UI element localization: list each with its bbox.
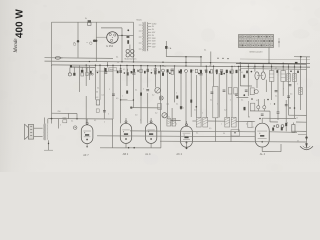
wire if link2 — [208, 120, 225, 122]
svg-text:0,2: 0,2 — [152, 95, 154, 97]
node j52 — [51, 118, 53, 120]
group x201 — [200, 70, 202, 73]
resistor R3 — [81, 73, 84, 76]
resistor group x133 — [133, 69, 135, 72]
box left of V6 — [248, 122, 252, 128]
earth arrow — [305, 143, 307, 148]
svg-text:0,2: 0,2 — [229, 71, 231, 73]
svg-text:0,1: 0,1 — [204, 50, 206, 52]
elec cap C30 — [292, 125, 295, 133]
wire if link3 — [236, 120, 255, 122]
wire ak2 bottom — [186, 141, 188, 147]
svg-text:2x350: 2x350 — [152, 23, 156, 25]
wire v104 — [103, 67, 105, 119]
svg-text:1: 1 — [140, 120, 141, 122]
transformer T1 primary winding — [142, 22, 145, 51]
wire v141 — [140, 66, 142, 124]
bus line lower — [52, 65, 311, 67]
tube V3 AB2 — [120, 123, 131, 143]
wire v133 — [132, 66, 134, 108]
wire v77 — [76, 21, 78, 23]
wire lamp feed — [129, 45, 131, 50]
stub right of block — [278, 38, 280, 47]
osc box a — [158, 104, 162, 110]
wire x266 — [265, 80, 267, 92]
mark m2 — [97, 72, 99, 74]
res ak2 a — [176, 96, 178, 99]
wire x254 — [254, 64, 256, 72]
node j77 — [76, 118, 78, 120]
group x181 — [180, 69, 182, 72]
transformer T1 secondary winding — [146, 22, 149, 51]
switch contact b — [95, 40, 98, 43]
svg-text:0,5: 0,5 — [116, 98, 118, 100]
mark m9 — [158, 71, 160, 73]
wire tube1 bottom — [86, 144, 88, 147]
svg-text:0,5: 0,5 — [253, 68, 255, 70]
svg-text:0,3: 0,3 — [135, 115, 137, 117]
svg-text:50: 50 — [117, 62, 119, 64]
group x191 — [190, 69, 192, 72]
fuse holder ellipse — [55, 57, 60, 60]
resistor group x147 — [147, 69, 149, 72]
jack circle — [73, 126, 77, 130]
junction blob ak2 — [180, 106, 182, 109]
wire short link left — [71, 66, 95, 68]
cap if1 — [211, 91, 214, 93]
svg-text:0,1: 0,1 — [241, 72, 243, 74]
circ out1 — [276, 125, 279, 128]
wire top mid vertical c — [185, 57, 187, 67]
wire v174 — [174, 66, 176, 103]
wire v107 — [107, 62, 109, 68]
wire rectifier anode feed — [96, 36, 107, 38]
mark m17 — [251, 71, 253, 73]
cap if3 — [235, 93, 238, 95]
svg-text:3: 3 — [217, 104, 218, 106]
svg-text:3: 3 — [288, 68, 289, 70]
svg-text:1: 1 — [270, 104, 271, 106]
res grid x273 — [272, 128, 274, 131]
node bb1 — [128, 147, 130, 149]
grid cap V5 — [186, 124, 188, 126]
group x232 — [231, 70, 233, 73]
wire rectifier output — [118, 34, 134, 36]
wire ak2 h — [172, 119, 181, 121]
wire field coil link — [52, 112, 78, 114]
dial lamp 4 — [131, 54, 134, 57]
wire top mid vertical a — [165, 41, 167, 57]
svg-text:Skalenlampen: Skalenlampen — [124, 59, 136, 61]
cap row b — [289, 84, 292, 86]
svg-text:0,5: 0,5 — [209, 128, 211, 130]
coil box right b — [281, 71, 286, 82]
wire v213 — [213, 66, 215, 86]
svg-text:5: 5 — [170, 70, 171, 72]
node h100 b — [133, 99, 134, 100]
wire bb v112 — [111, 119, 113, 148]
mark m7 — [144, 71, 146, 74]
svg-text:0,1: 0,1 — [275, 68, 277, 70]
tube V4 AL4 — [145, 123, 156, 143]
group x196 — [195, 69, 197, 72]
grid cap V2 — [86, 122, 88, 124]
box if2a — [228, 88, 231, 95]
node dot — [127, 29, 129, 31]
wire v201b — [200, 73, 202, 117]
wire x258 — [256, 80, 258, 88]
contact ring near rectifier — [90, 42, 93, 45]
cap r8 — [285, 104, 288, 106]
circ d2 — [263, 106, 266, 109]
resistor group x155 — [154, 68, 157, 70]
wire right top stub — [294, 56, 310, 58]
transformer T1 core — [143, 22, 145, 52]
wire right vert a — [288, 64, 290, 115]
svg-text:5: 5 — [108, 114, 109, 116]
svg-text:0,1: 0,1 — [241, 100, 243, 102]
node junction at frame right — [121, 35, 123, 37]
resistor group x141 — [140, 69, 142, 72]
svg-text:8: 8 — [287, 123, 288, 125]
rectifier tube G354 — [107, 32, 118, 43]
wire h100 — [121, 99, 134, 101]
wire v147 — [147, 66, 149, 88]
svg-text:G 354: G 354 — [106, 44, 114, 48]
wire out v286 — [285, 100, 287, 123]
res r31 — [281, 127, 283, 130]
mark m18 — [276, 70, 278, 73]
dial lamp 2 — [131, 50, 134, 53]
pot with cross — [159, 96, 163, 100]
tube V5 AK2 — [181, 126, 193, 147]
wire x248 — [247, 64, 249, 96]
resistor R10 — [96, 100, 99, 105]
resistor x244 — [243, 75, 245, 78]
tube V2 AF7 — [81, 125, 93, 144]
small box spk — [63, 120, 67, 123]
wire top mid vertical e — [210, 52, 212, 67]
wire v6 top feed — [261, 118, 263, 123]
box left of V6 low — [231, 130, 239, 136]
svg-text:2: 2 — [283, 89, 284, 91]
mark m13 — [209, 71, 211, 73]
group x226 — [226, 70, 228, 73]
wire v79 — [78, 66, 80, 92]
bus line bottom right — [240, 68, 307, 71]
svg-text:AK 2: AK 2 — [176, 152, 182, 156]
wire det h2 — [236, 96, 248, 98]
svg-text:2: 2 — [158, 70, 159, 72]
svg-text:250: 250 — [58, 111, 61, 113]
group x211 — [210, 70, 212, 73]
svg-text:Wellenschalter: Wellenschalter — [250, 51, 263, 54]
wire v196b — [196, 75, 198, 117]
svg-text:AL 4: AL 4 — [260, 152, 266, 156]
mark m11 — [179, 71, 181, 73]
node mark right — [196, 106, 198, 108]
svg-text:2: 2 — [204, 70, 205, 72]
wire if link1 — [192, 120, 196, 122]
wire v191b — [190, 72, 192, 117]
svg-text:0,5: 0,5 — [290, 94, 292, 96]
grid cap V4 — [150, 121, 152, 123]
wire v86 — [85, 65, 87, 86]
transformer tap stubs right — [148, 23, 152, 25]
node blob x131 — [130, 107, 132, 109]
output transformer secondary — [46, 124, 49, 140]
node tm2 — [200, 56, 202, 58]
wire spk bot — [34, 136, 43, 138]
loudspeaker — [28, 125, 33, 140]
resistor group x105 — [105, 68, 107, 71]
waveband switch contacts — [239, 36, 241, 38]
wire bb v161 — [160, 131, 162, 148]
dot r1 — [251, 98, 253, 100]
svg-text:AB 2: AB 2 — [123, 152, 129, 156]
svg-text:2: 2 — [104, 122, 105, 124]
svg-text:0,1: 0,1 — [97, 88, 99, 90]
svg-text:0,1: 0,1 — [135, 90, 137, 92]
mark m14 — [223, 73, 225, 75]
svg-text:50: 50 — [248, 117, 250, 119]
svg-text:0,2: 0,2 — [178, 70, 180, 72]
wire ot bottom stub — [44, 149, 53, 151]
wire v120 — [120, 66, 122, 100]
svg-text:1: 1 — [297, 84, 298, 86]
wire x271 — [271, 64, 273, 70]
group x236 — [236, 70, 238, 73]
svg-text:0,2: 0,2 — [155, 113, 157, 115]
wire bb v215 — [215, 131, 217, 141]
node right mid — [294, 107, 296, 109]
node x240 — [240, 69, 242, 71]
svg-text:0,5: 0,5 — [199, 70, 201, 72]
wire out v278 — [277, 69, 279, 112]
cap if2 — [223, 89, 226, 91]
svg-text:0,3: 0,3 — [96, 97, 99, 99]
svg-text:Netztr.: Netztr. — [137, 19, 143, 22]
dot r5 — [289, 107, 290, 108]
svg-text:0,1: 0,1 — [176, 104, 178, 106]
wire bottom rail a — [130, 130, 255, 133]
wire rl6 — [263, 109, 265, 111]
dial lamp 1 — [126, 50, 129, 53]
contact ring a — [73, 43, 76, 46]
wire v226b — [226, 73, 228, 118]
box det — [250, 88, 254, 95]
svg-text:0,1: 0,1 — [209, 66, 211, 68]
wire right edge vertical — [306, 57, 308, 140]
svg-text:0,1: 0,1 — [164, 66, 166, 68]
svg-text:0,1: 0,1 — [123, 69, 125, 71]
mark m10 — [169, 72, 171, 74]
wire right link2 — [292, 130, 307, 132]
res R11 — [126, 91, 128, 94]
wire v186b — [185, 73, 187, 126]
svg-text:4: 4 — [246, 124, 247, 126]
res out b — [285, 123, 287, 126]
svg-text:1: 1 — [202, 113, 203, 115]
svg-text:5: 5 — [143, 89, 144, 91]
wire right vert c — [300, 57, 302, 110]
svg-text:2: 2 — [92, 69, 93, 71]
resistor right — [295, 62, 298, 64]
wire h107 — [131, 107, 160, 109]
wire switch drop b — [95, 22, 97, 61]
wire top mid horiz — [166, 56, 201, 58]
svg-text:Mende: Mende — [13, 38, 19, 54]
wire v232b — [231, 66, 233, 117]
cap C10 — [103, 110, 106, 112]
junction blob on bus — [70, 65, 72, 68]
bus line upper — [45, 61, 311, 64]
wire tube3 bottom — [150, 143, 152, 147]
box if2b — [234, 88, 237, 95]
dot r4 — [274, 103, 275, 104]
coil Lc — [299, 88, 303, 95]
svg-text:AL 4: AL 4 — [145, 152, 151, 156]
svg-text:400 W: 400 W — [15, 9, 26, 38]
svg-text:0,1: 0,1 — [71, 121, 73, 123]
transformer tap stubs left — [139, 24, 142, 26]
group x216 — [216, 70, 218, 73]
svg-text:2: 2 — [247, 72, 248, 74]
wire right link — [289, 114, 307, 116]
earth symbol curve — [300, 146, 313, 149]
node ot — [48, 143, 49, 144]
svg-text:1: 1 — [221, 124, 222, 126]
antenna coil Lb — [293, 74, 297, 82]
node osc — [171, 120, 173, 122]
contact pair — [89, 73, 91, 75]
cap out a — [277, 111, 280, 113]
wire rl5 — [257, 109, 259, 111]
wire v219 — [218, 73, 220, 118]
wire rl3 — [257, 99, 259, 106]
mark m4 — [124, 72, 126, 74]
svg-text:Netzs.: Netzs. — [109, 68, 114, 71]
wire bottom rail b — [97, 135, 255, 138]
wire ot top b — [47, 119, 49, 124]
wire v95 — [95, 65, 97, 100]
mark m16 — [246, 71, 248, 74]
svg-text:2: 2 — [183, 108, 184, 110]
svg-text:0,1: 0,1 — [252, 127, 254, 129]
box r21 — [250, 103, 254, 111]
wire voltage selector rail — [45, 57, 114, 60]
if transformer 1 a — [196, 117, 201, 127]
resistor group x127 — [127, 69, 129, 72]
svg-text:0,5: 0,5 — [137, 69, 139, 71]
cap C11 — [112, 93, 115, 95]
filter box tall — [213, 87, 218, 118]
grid cap V3 — [125, 121, 127, 123]
wire v77b — [76, 114, 78, 119]
var cap osc — [162, 113, 167, 118]
node det — [243, 94, 245, 96]
resistor R block — [127, 40, 129, 44]
wire det h — [250, 110, 270, 112]
wire v58 — [58, 119, 60, 129]
svg-text:0,5: 0,5 — [194, 110, 196, 112]
wire rl4 — [263, 99, 265, 106]
pot P2 circle — [155, 88, 161, 94]
wire right stub3 — [296, 121, 307, 123]
wire stub — [95, 70, 113, 72]
wire det h3 — [240, 85, 252, 87]
svg-text:10: 10 — [184, 70, 186, 72]
svg-text:1: 1 — [122, 96, 123, 98]
cap r6 — [245, 89, 248, 91]
circ d1 — [257, 106, 260, 109]
mark m12 — [198, 73, 200, 75]
svg-text:2: 2 — [230, 100, 231, 102]
wire ot top a — [44, 118, 46, 124]
wire h131 — [270, 131, 297, 134]
bus segment dark right — [236, 62, 307, 65]
svg-text:L: L — [162, 99, 163, 101]
coil box right a — [269, 71, 274, 82]
wire v6 bottom horiz — [262, 151, 281, 153]
wire rectifier frame top — [101, 27, 122, 29]
wire osc v — [171, 108, 173, 126]
wire v6 bottom — [261, 147, 263, 152]
wire v155 — [154, 66, 156, 88]
res R12 — [140, 93, 142, 96]
wire v68 — [68, 113, 70, 118]
svg-text:0,3: 0,3 — [215, 70, 217, 72]
svg-text:AF 7: AF 7 — [83, 153, 89, 157]
cap C2 — [81, 70, 84, 73]
small box x97 — [96, 109, 99, 112]
wire v113 — [112, 65, 114, 119]
wire x283 — [282, 65, 284, 71]
bus faint line right — [240, 58, 310, 61]
node tm1 — [185, 56, 187, 58]
if transformer 1 b — [203, 117, 208, 127]
wire v160 — [160, 66, 162, 131]
tube V6 AL4 output — [255, 123, 269, 147]
svg-text:1: 1 — [222, 71, 223, 73]
pickup blob — [165, 46, 167, 49]
dot r3 — [267, 99, 269, 101]
wire right vert b — [294, 64, 296, 118]
node bb2 — [133, 147, 135, 149]
svg-text:0,1: 0,1 — [275, 96, 277, 98]
wire gang link — [257, 75, 263, 77]
osc coil d — [172, 119, 176, 126]
mark m3 — [117, 71, 119, 74]
mark m15 — [230, 71, 232, 73]
osc coil c — [167, 119, 171, 126]
wire out h — [270, 121, 278, 123]
tick marks near 220 — [217, 58, 218, 59]
svg-text:50: 50 — [96, 92, 98, 94]
resistor R4 — [86, 72, 88, 75]
dial lamp 3 — [126, 54, 129, 57]
output transformer core — [44, 124, 46, 141]
wire switch drop a — [77, 22, 79, 58]
svg-text:1: 1 — [262, 68, 263, 70]
resistor group x120 — [120, 68, 122, 70]
wire mains left drop — [51, 22, 53, 123]
res r20 — [244, 107, 246, 110]
wire spk top — [34, 127, 43, 129]
mark m19 — [290, 70, 292, 72]
bus junction dots upper — [89, 61, 90, 62]
svg-text:0,3: 0,3 — [256, 100, 258, 102]
